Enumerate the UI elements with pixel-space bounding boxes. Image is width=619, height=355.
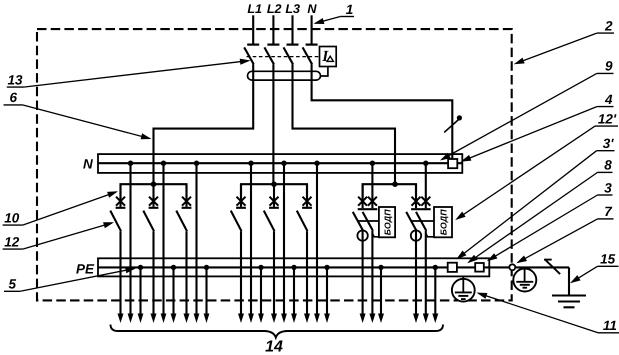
junction PE tap circuit 3 [204,265,209,270]
wire outgoing PE circuit 7 [380,267,382,314]
circuit breaker QF4 [185,184,187,207]
BODP 1 sensor circle [357,230,367,240]
earth symbol circle (PE bus) [462,276,464,292]
wire outgoing L circuit 6 [306,231,308,314]
junction group 2 feed [271,181,277,187]
junction group 3 feed [392,181,398,187]
wire outgoing N circuit 1 [129,163,131,314]
junction N tap circuit 5 [281,161,286,166]
BODP 1 box [379,207,395,237]
N busbar removable link (square) [448,159,457,168]
BODP 2 box connection [426,234,434,237]
BODP 1 box connection [372,234,379,237]
wire incoming L2 [272,15,274,43]
svg-text:8: 8 [604,158,612,173]
svg-text:11: 11 [603,318,617,333]
RCD linkage (dashed) [247,56,320,58]
wire L3 RCD to group3 feed [293,64,396,184]
circuit breaker QF6 [273,184,275,207]
svg-text:12': 12' [598,111,617,126]
wire outgoing N circuit 4 [250,163,252,314]
wire outgoing PE circuit 8 [434,267,436,314]
wire outgoing PE circuit 3 [205,267,207,314]
PE busbar [98,258,489,276]
wire incoming N [311,15,313,43]
svg-text:1: 1 [346,2,354,17]
wire outgoing N circuit 7 [371,231,373,315]
wire N tap circuit 7 [371,163,373,208]
wire outgoing L circuit 4 [240,231,242,314]
enclosure border (dashed) [37,29,512,300]
svg-text:12: 12 [4,234,20,249]
ground electrode symbol [552,294,586,296]
wire outgoing PE circuit 6 [326,267,328,314]
wire L2 RCD to group2 feed [272,64,274,184]
wire outgoing PE circuit 4 [260,267,262,314]
svg-text:5: 5 [9,277,17,292]
junction N tap circuit 7 [370,161,375,166]
removable-link mark on N conductor [444,120,458,133]
BODP 2 linkage [411,220,434,222]
junction N tap circuit 4 [248,161,253,166]
junction N tap circuit 8 [423,161,428,166]
wire incoming L3 [291,15,293,43]
svg-text:14: 14 [265,338,283,355]
junction PE tap circuit 8 [433,265,438,270]
RCD pole contact 4 [306,43,318,45]
wire outgoing N circuit 2 [162,163,164,314]
junction N tap circuit 3 [194,161,199,166]
junction PE tap circuit 1 [138,265,143,270]
N busbar [98,154,462,173]
svg-text:10: 10 [4,210,20,225]
svg-text:3': 3' [603,136,615,151]
junction PE tap circuit 2 [171,265,176,270]
svg-text:БОДП: БОДП [382,209,392,236]
svg-text:N: N [307,2,317,16]
wire outgoing L circuit 2 [152,231,154,314]
junction N tap circuit 1 [128,161,133,166]
svg-text:I: I [321,48,329,65]
wire outgoing L circuit 1 [119,231,121,314]
svg-text:L3: L3 [285,2,300,16]
terminal circle on enclosure border [509,264,515,270]
wire outgoing L circuit 8 [415,231,417,315]
svg-text:L1: L1 [247,2,262,16]
junction PE tap circuit 6 [324,265,329,270]
RCD toroid (zero-sequence CT) [248,71,321,80]
BODP 2 sensor circle [411,230,421,240]
PE link square left [448,263,457,272]
svg-text:2: 2 [604,18,613,33]
circuit breaker QF3 [152,184,154,207]
circuit breaker QF5 [240,184,242,207]
wire outgoing N circuit 6 [316,163,318,314]
junction N tap circuit 6 [314,161,319,166]
svg-text:3: 3 [604,180,612,195]
earth symbol circle (external) [524,267,526,281]
wire outgoing PE circuit 2 [172,267,174,314]
RCD pole contact 2 [267,43,279,45]
junction PE tap circuit 4 [258,265,263,270]
svg-text:6: 6 [10,90,18,105]
svg-text:4: 4 [604,92,613,107]
wire outgoing N circuit 3 [195,163,197,314]
svg-text:N: N [83,157,93,172]
junction group 1 feed [151,181,157,187]
svg-text:БОДП: БОДП [438,209,448,236]
wire N RCD to N busbar [312,64,453,159]
RCD pole contact 1 [247,43,259,45]
wire outgoing N circuit 8 [425,231,427,315]
RCD-breaker unit BODP 2 [415,184,417,208]
PE busbar conductor and earthing run [98,266,569,268]
wire incoming L1 [252,15,254,43]
RCD-breaker unit BODP 1 [362,184,364,208]
svg-text:L2: L2 [267,2,282,16]
wire N tap circuit 8 [425,163,427,208]
earthing conductor [568,267,570,295]
brace outgoing circuits [111,325,444,338]
wire outgoing N circuit 5 [283,163,285,314]
svg-text:9: 9 [605,59,613,74]
group 1 phase bracket [121,184,187,197]
junction PE tap circuit 5 [291,265,296,270]
wire outgoing L circuit 3 [185,231,187,314]
N busbar conductor [98,162,462,164]
RCD pole contact 3 [287,43,299,45]
group 2 phase bracket [241,184,307,197]
svg-text:15: 15 [600,252,616,267]
wire outgoing PE circuit 5 [293,267,295,314]
junction PE tap circuit 7 [378,265,383,270]
BODP 2 box [434,207,452,237]
wire outgoing L circuit 7 [362,231,364,315]
svg-text:PE: PE [76,261,95,276]
PE link square right [475,263,484,272]
junction N tap circuit 2 [161,161,166,166]
RCD trip unit box I-delta [320,47,337,67]
group 3 phase bracket [363,184,416,197]
circuit breaker QF2 [119,184,121,207]
wire trip-unit to toroid [320,67,328,77]
disconnect mark on earthing conductor [545,259,560,274]
wire outgoing L circuit 5 [273,231,275,314]
wire outgoing PE circuit 1 [139,267,141,314]
svg-text:13: 13 [8,72,24,87]
BODP 1 linkage [357,220,379,222]
wire L1 RCD to group1 feed [154,64,254,184]
circuit breaker QF7 [306,184,308,207]
